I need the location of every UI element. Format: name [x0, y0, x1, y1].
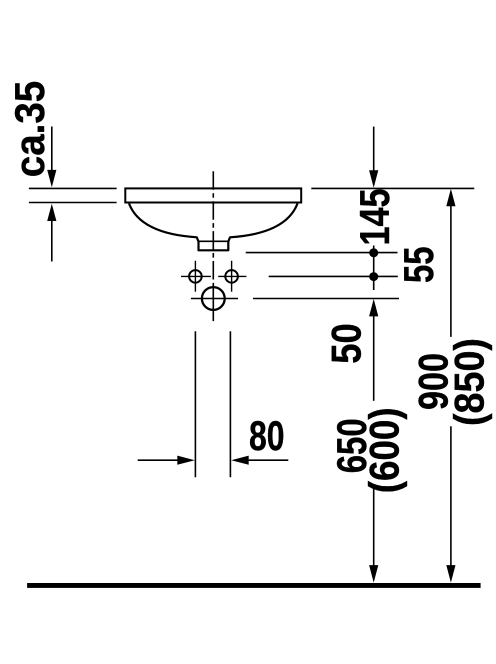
145 dimension arrow from above (down) — [373, 127, 375, 172]
vertical centerline (dash-dot) — [212, 171, 214, 286]
washbasin rim (top mounting flange) — [125, 188, 301, 202]
faucet hole crosshair horizontal left — [181, 275, 211, 277]
faucet hole crosshair vertical right — [231, 261, 233, 292]
svg-text:(600): (600) — [361, 407, 408, 493]
dot terminator at 145/55 — [369, 248, 378, 257]
80 dimension right arrow (pointing left) — [231, 456, 249, 465]
faucet hole left — [189, 270, 202, 283]
dot terminator at 55/50 — [369, 272, 378, 281]
drain pipe projection line right — [229, 331, 231, 477]
floor line — [27, 583, 481, 588]
80 dimension left arrow (pointing right) — [138, 459, 179, 461]
svg-text:50: 50 — [323, 323, 370, 364]
drain hole large circle — [202, 287, 225, 310]
faucet hole crosshair vertical left — [194, 261, 196, 292]
right extension line (rim level) — [311, 187, 474, 189]
left extension line bottom (countertop underside) — [29, 202, 117, 204]
svg-text:55: 55 — [395, 247, 442, 284]
ca.35 dimension lower arrow (up) — [51, 220, 53, 262]
svg-text:145: 145 — [351, 189, 398, 246]
faucet hole right — [225, 270, 238, 283]
drain hole crosshair horizontal — [191, 298, 238, 300]
extension line at drain hole level — [253, 298, 399, 300]
650 dimension upper arrow (up) — [369, 299, 378, 317]
drain inner seam line — [199, 240, 229, 242]
svg-text:80: 80 — [249, 412, 285, 459]
650 dimension lower shaft and arrow (down to floor) — [373, 488, 375, 566]
svg-text:(850): (850) — [445, 338, 492, 426]
ca.35 dimension upper arrow (down) — [51, 127, 53, 172]
faucet hole crosshair horizontal right — [218, 275, 246, 277]
centerline solid through large hole — [212, 285, 214, 321]
svg-text:ca.35: ca.35 — [6, 81, 53, 178]
900 dimension upper arrow (up at rim) — [446, 189, 455, 207]
extension line at faucet hole level — [269, 275, 398, 277]
chain line through dots — [373, 246, 375, 291]
drain pipe projection line left — [194, 331, 196, 477]
extension line at drain bottom level — [246, 252, 398, 254]
900 dimension lower shaft and arrow (down to floor) — [450, 426, 452, 566]
washbasin bowl outline with drain fitting — [129, 204, 298, 251]
left extension line top (rim level) — [29, 187, 117, 189]
